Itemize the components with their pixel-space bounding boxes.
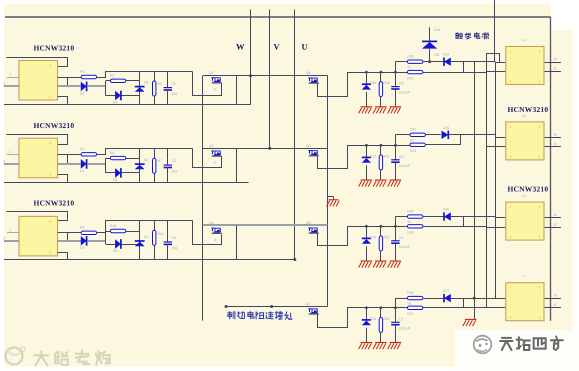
capacitor C5 bbox=[391, 135, 411, 180]
zener D9 bbox=[135, 220, 149, 259]
ground resistor row4 bbox=[373, 343, 387, 350]
opto U7 left pin stubs bbox=[486, 299, 507, 308]
gate rail row1 wire bbox=[203, 75, 328, 77]
svg-text:C7: C7 bbox=[399, 317, 403, 321]
resistor R22 row3 bbox=[379, 226, 390, 261]
opto U6 right pins bbox=[544, 213, 561, 228]
svg-text:U7: U7 bbox=[522, 275, 526, 279]
node U vertical wire bbox=[293, 10, 296, 262]
ground zener row3 bbox=[359, 261, 373, 268]
wire Q7 source drop bbox=[318, 308, 396, 328]
left gate bus vertical wire bbox=[202, 76, 204, 321]
svg-text:104: 104 bbox=[172, 246, 178, 250]
svg-text:11: 11 bbox=[554, 67, 558, 71]
label U5 HCNW3210 bbox=[508, 105, 549, 114]
svg-text:8: 8 bbox=[539, 125, 541, 129]
svg-text:104: 104 bbox=[172, 92, 178, 96]
svg-text:4: 4 bbox=[510, 155, 512, 159]
diode D26 antiparallel bbox=[423, 208, 496, 221]
svg-text:8: 8 bbox=[50, 219, 52, 223]
zener D22 bbox=[362, 226, 377, 261]
svg-text:D5: D5 bbox=[113, 178, 117, 182]
parallel block left wire bbox=[105, 158, 107, 173]
svg-text:R2: R2 bbox=[110, 74, 114, 78]
svg-text:8: 8 bbox=[50, 64, 52, 68]
svg-text:C4: C4 bbox=[399, 82, 403, 86]
svg-text:8: 8 bbox=[539, 205, 541, 209]
wire Q6 source drop bbox=[318, 227, 396, 246]
svg-text:0.01uF: 0.01uF bbox=[399, 245, 411, 249]
svg-text:W: W bbox=[236, 42, 245, 52]
svg-text:R22: R22 bbox=[384, 235, 390, 239]
ground resistor row3 bbox=[373, 261, 387, 268]
ground resistor row2 bbox=[373, 180, 387, 187]
resistor R20 row1 bbox=[379, 72, 390, 107]
svg-text:D22: D22 bbox=[370, 235, 376, 239]
trigger bus B vertical wire bbox=[495, 62, 497, 298]
svg-text:4: 4 bbox=[510, 80, 512, 84]
svg-text:D1: D1 bbox=[80, 91, 84, 95]
svg-text:5: 5 bbox=[539, 235, 541, 239]
resistor R5 gate bbox=[58, 147, 97, 156]
ground zener row1 bbox=[359, 107, 373, 114]
svg-text:D26: D26 bbox=[443, 208, 449, 212]
wire merge row3 bbox=[423, 217, 486, 227]
IGBT Q2 bbox=[209, 144, 222, 165]
svg-text:Q5: Q5 bbox=[306, 144, 311, 148]
wire rail to resistors row2 bbox=[365, 135, 410, 147]
brake rail row4 wire bbox=[225, 305, 328, 308]
label U1 HCNW3210 bbox=[34, 43, 75, 52]
node W vertical wire bbox=[249, 10, 252, 105]
svg-text:R10: R10 bbox=[110, 224, 116, 228]
diode D25 antiparallel bbox=[425, 126, 495, 139]
capacitor C1 bbox=[164, 72, 178, 105]
label U2 HCNW3210 bbox=[34, 121, 75, 130]
diode D8 parallel bbox=[106, 239, 140, 253]
svg-text:HCNW3210: HCNW3210 bbox=[34, 43, 75, 52]
opto U5 right pins bbox=[544, 133, 561, 147]
svg-text:4: 4 bbox=[510, 235, 512, 239]
resistor R11 gate-emitter bbox=[153, 220, 164, 259]
opto U5 left pin stubs bbox=[486, 138, 507, 147]
resistor R31 lower bbox=[407, 70, 423, 80]
svg-text:R11: R11 bbox=[158, 232, 164, 236]
diode D2 parallel bbox=[106, 91, 140, 105]
IGBT Q3 bbox=[209, 221, 222, 242]
wire rail to resistors row3 bbox=[365, 217, 407, 228]
trigger return vertical wire bbox=[473, 62, 476, 319]
svg-text:R37: R37 bbox=[407, 312, 413, 316]
opto-coupler U6 body bbox=[506, 194, 544, 240]
svg-text:C5: C5 bbox=[399, 155, 403, 159]
zener D3 bbox=[135, 72, 149, 105]
svg-text:D7: D7 bbox=[80, 246, 84, 250]
svg-text:2: 2 bbox=[10, 150, 12, 154]
capacitor C2 bbox=[164, 149, 178, 183]
opto U7 right pins bbox=[544, 293, 561, 307]
ground resistor row1 bbox=[373, 107, 387, 114]
svg-text:V: V bbox=[274, 42, 281, 52]
DC bus right border wire bbox=[550, 17, 552, 320]
resistor R33 lower bbox=[410, 143, 426, 153]
svg-text:5: 5 bbox=[539, 155, 541, 159]
svg-text:0.01uF: 0.01uF bbox=[399, 164, 411, 168]
svg-text:D21: D21 bbox=[370, 154, 376, 158]
opto U4 left pin stubs bbox=[486, 63, 507, 72]
wire Q2 drain loop bbox=[236, 148, 238, 182]
resistor R9 gate bbox=[58, 225, 97, 234]
svg-text:2: 2 bbox=[10, 228, 12, 232]
diode D7 series bbox=[58, 236, 106, 250]
trigger bus A top corner wire bbox=[487, 54, 500, 63]
zener D19 bootstrap bbox=[422, 27, 441, 63]
svg-text:D4: D4 bbox=[80, 169, 84, 173]
wire merge row1 bbox=[423, 62, 486, 73]
svg-text:10: 10 bbox=[554, 57, 558, 61]
svg-text:8: 8 bbox=[50, 141, 52, 145]
svg-text:4: 4 bbox=[510, 316, 512, 320]
svg-text:U5: U5 bbox=[522, 114, 526, 118]
svg-text:Q3: Q3 bbox=[209, 221, 214, 225]
resistor R35 lower bbox=[407, 225, 423, 235]
svg-text:R3: R3 bbox=[158, 82, 162, 86]
logo icon 天拓四方 bbox=[474, 336, 492, 354]
svg-text:5: 5 bbox=[539, 316, 541, 320]
resistor R10 parallel bbox=[106, 224, 140, 233]
svg-text:11: 11 bbox=[554, 222, 558, 226]
zener D6 bbox=[135, 149, 149, 183]
diode D4 series bbox=[58, 159, 106, 173]
opto-coupler U2 input top wire bbox=[7, 135, 68, 145]
svg-text:0.01uF: 0.01uF bbox=[399, 326, 411, 330]
svg-text:D27: D27 bbox=[443, 289, 449, 293]
wire merge row2 bbox=[425, 135, 461, 145]
IGBT Q7 bbox=[306, 302, 319, 314]
opto-coupler U1 pin3 input wire bbox=[3, 82, 19, 86]
opto-coupler U3 pin2 stub wire bbox=[7, 228, 19, 232]
parallel block left wire bbox=[105, 231, 107, 244]
wire Q1 drain loop bbox=[236, 76, 238, 105]
wire rail to Q2 source bbox=[193, 149, 222, 168]
resistor R7 gate-emitter bbox=[153, 149, 162, 183]
IGBT Q1 bbox=[209, 71, 222, 92]
opto-coupler U2 pin5 stub wire bbox=[58, 175, 68, 183]
capacitor C6 bbox=[391, 217, 411, 261]
svg-text:R23: R23 bbox=[384, 317, 390, 321]
svg-text:D24: D24 bbox=[443, 53, 449, 57]
wire R9 to rail bbox=[97, 221, 193, 233]
svg-text:U6: U6 bbox=[522, 194, 526, 198]
wire R1 to rail bbox=[97, 72, 193, 78]
opto-coupler U3 pin3 input wire bbox=[3, 236, 19, 241]
opto-coupler U1 body bbox=[19, 61, 58, 101]
svg-text:R1: R1 bbox=[80, 70, 84, 74]
phase W bottom rail wire bbox=[4, 104, 251, 106]
svg-text:11: 11 bbox=[554, 303, 558, 307]
resistor R36 upper bbox=[407, 291, 423, 306]
wire pin link bbox=[67, 77, 69, 86]
opto-coupler U3 body bbox=[19, 216, 58, 256]
svg-text:18V: 18V bbox=[434, 53, 441, 57]
wire Q3 drain loop bbox=[236, 225, 238, 259]
resistor R30 upper bbox=[407, 54, 423, 69]
svg-text:R32: R32 bbox=[410, 128, 416, 132]
resistor R32 upper bbox=[410, 128, 426, 143]
svg-text:HCNW3210: HCNW3210 bbox=[34, 199, 75, 208]
opto-coupler U1 pin5 stub wire bbox=[58, 97, 68, 105]
gate rail row2 wire bbox=[203, 148, 328, 150]
svg-text:3: 3 bbox=[3, 159, 5, 163]
wire R5 to rail bbox=[97, 149, 193, 155]
diode D5 parallel bbox=[106, 168, 140, 182]
wire pin link bbox=[67, 233, 69, 241]
svg-text:1: 1 bbox=[510, 125, 512, 129]
wire rail to Q1 source bbox=[193, 72, 222, 96]
resistor R2 parallel bbox=[106, 74, 140, 83]
opto-coupler U2 body bbox=[19, 138, 58, 178]
svg-text:8: 8 bbox=[539, 286, 541, 290]
svg-text:D8: D8 bbox=[113, 249, 117, 253]
svg-text:8: 8 bbox=[539, 50, 541, 54]
svg-text:R36: R36 bbox=[407, 291, 413, 295]
wire rail to resistors row1 bbox=[365, 62, 407, 74]
right gate bus vertical wire bbox=[327, 76, 329, 307]
wire merge row4 bbox=[423, 298, 486, 308]
label brake resistor connection 制动电阻连接处 bbox=[228, 312, 292, 320]
label W bbox=[236, 42, 245, 52]
svg-text:HCNW3210: HCNW3210 bbox=[34, 121, 75, 130]
svg-text:R21: R21 bbox=[384, 154, 390, 158]
svg-text:Q7: Q7 bbox=[306, 302, 311, 306]
svg-text:1: 1 bbox=[510, 286, 512, 290]
opto-coupler U2 pin3 input wire bbox=[3, 159, 19, 164]
parallel block left wire bbox=[105, 81, 107, 96]
ground zener row2 bbox=[359, 180, 373, 187]
opto-coupler U7 body bbox=[506, 275, 544, 321]
svg-text:3: 3 bbox=[3, 236, 5, 240]
wire Q4 source drop bbox=[318, 73, 396, 97]
svg-text:R6: R6 bbox=[110, 151, 114, 155]
capacitor C3 bbox=[164, 220, 178, 259]
svg-text:1: 1 bbox=[510, 205, 512, 209]
svg-text:11: 11 bbox=[554, 142, 558, 146]
capacitor C4 bbox=[391, 62, 411, 107]
svg-text:U: U bbox=[302, 42, 308, 52]
svg-text:104: 104 bbox=[172, 169, 178, 173]
svg-text:C2: C2 bbox=[172, 159, 176, 163]
svg-text:HCNW3210: HCNW3210 bbox=[508, 185, 549, 194]
wire pin link bbox=[67, 154, 69, 164]
IGBT Q4 bbox=[306, 71, 319, 83]
opto-coupler U1 input top wire bbox=[7, 58, 68, 67]
node V vertical wire bbox=[268, 10, 271, 150]
svg-text:R35: R35 bbox=[407, 231, 413, 235]
svg-text:5: 5 bbox=[50, 251, 52, 255]
resistor R21 row2 bbox=[379, 145, 390, 180]
wire rail to resistors row4 bbox=[365, 299, 407, 310]
svg-text:R33: R33 bbox=[410, 149, 416, 153]
label V bbox=[274, 42, 281, 52]
svg-text:R9: R9 bbox=[80, 225, 84, 229]
svg-text:R7: R7 bbox=[158, 159, 162, 163]
resistor R37 lower bbox=[407, 306, 423, 316]
svg-text:20: 20 bbox=[410, 138, 414, 142]
logo text 天拓四方 bbox=[500, 337, 563, 351]
opto-coupler U3 input top wire bbox=[7, 212, 68, 221]
svg-text:10: 10 bbox=[554, 133, 558, 137]
zener D20 bbox=[362, 72, 377, 107]
label U3 HCNW3210 bbox=[34, 199, 75, 208]
ground capacitor row2 bbox=[388, 180, 402, 187]
svg-text:R31: R31 bbox=[407, 76, 413, 80]
phase U bottom rail wire bbox=[4, 259, 295, 261]
capacitor C7 bbox=[391, 298, 411, 342]
IGBT Q5 bbox=[306, 144, 319, 156]
svg-text:C1: C1 bbox=[172, 81, 176, 85]
svg-text:R5: R5 bbox=[80, 147, 84, 151]
diode D1 series bbox=[58, 82, 106, 96]
svg-text:C6: C6 bbox=[399, 236, 403, 240]
resistor R1 gate bbox=[58, 70, 97, 79]
svg-text:U4: U4 bbox=[522, 39, 526, 43]
svg-text:5: 5 bbox=[50, 173, 52, 177]
svg-text:HCNW3210: HCNW3210 bbox=[508, 105, 549, 114]
svg-text:R30: R30 bbox=[407, 54, 413, 58]
svg-text:5: 5 bbox=[50, 95, 52, 99]
trigger bus A vertical wire bbox=[486, 53, 488, 308]
svg-text:20: 20 bbox=[407, 220, 411, 224]
opto-coupler U4 body bbox=[506, 39, 544, 85]
svg-text:0.01uF: 0.01uF bbox=[399, 91, 411, 95]
svg-text:Q2: Q2 bbox=[209, 144, 214, 148]
diode D27 antiparallel bbox=[423, 289, 496, 302]
zener D23 bbox=[362, 308, 377, 343]
ground gate bus bbox=[327, 197, 340, 207]
resistor R6 parallel bbox=[106, 151, 140, 160]
svg-text:D2: D2 bbox=[113, 101, 117, 105]
ground trigger return bbox=[463, 319, 477, 326]
resistor R3 gate-emitter bbox=[153, 72, 162, 105]
svg-text:1: 1 bbox=[510, 50, 512, 54]
label U bbox=[302, 42, 308, 52]
gate rail row3 wire bbox=[203, 224, 328, 226]
trigger supply vertical wire bbox=[494, 0, 496, 62]
svg-text:D19: D19 bbox=[434, 28, 440, 32]
wire Q5 source drop bbox=[318, 146, 396, 169]
svg-text:D20: D20 bbox=[370, 81, 376, 85]
opto-coupler U5 body bbox=[506, 114, 544, 160]
ground capacitor row1 bbox=[388, 107, 402, 114]
watermark text bbox=[34, 351, 109, 366]
svg-text:C3: C3 bbox=[172, 236, 176, 240]
wire rail to Q3 source bbox=[193, 221, 222, 245]
ground zener row4 bbox=[359, 343, 373, 350]
opto-coupler U3 pin5 stub wire bbox=[58, 253, 68, 260]
svg-text:Q4: Q4 bbox=[306, 71, 311, 75]
svg-text:R34: R34 bbox=[407, 209, 413, 213]
ground capacitor row3 bbox=[388, 261, 402, 268]
diode D24 antiparallel bbox=[423, 53, 496, 66]
svg-text:10: 10 bbox=[554, 213, 558, 217]
opto-coupler U2 pin2 stub wire bbox=[7, 150, 19, 155]
svg-text:10: 10 bbox=[554, 293, 558, 297]
svg-text:20: 20 bbox=[407, 65, 411, 69]
svg-text:D23: D23 bbox=[370, 317, 376, 321]
opto-coupler U1 pin2 stub wire bbox=[7, 73, 19, 78]
svg-text:D9: D9 bbox=[144, 235, 148, 239]
svg-text:5: 5 bbox=[539, 80, 541, 84]
ground capacitor row4 bbox=[388, 343, 402, 350]
svg-text:D6: D6 bbox=[144, 158, 148, 162]
zener D21 bbox=[362, 145, 377, 180]
svg-text:20: 20 bbox=[407, 302, 411, 306]
opto U6 left pin stubs bbox=[486, 218, 507, 228]
svg-text:Q6: Q6 bbox=[306, 221, 311, 225]
resistor R34 upper bbox=[407, 209, 423, 224]
IGBT Q6 bbox=[306, 221, 319, 233]
phase V bottom rail wire bbox=[4, 182, 249, 184]
svg-text:3: 3 bbox=[3, 82, 5, 86]
DC bus top wire bbox=[5, 16, 551, 18]
opto U4 right pins bbox=[544, 57, 561, 71]
label U6 HCNW3210 bbox=[508, 185, 549, 194]
svg-text:D3: D3 bbox=[144, 80, 148, 84]
svg-text:2: 2 bbox=[10, 73, 12, 77]
svg-text:R20: R20 bbox=[384, 81, 390, 85]
svg-text:D25: D25 bbox=[443, 126, 449, 130]
resistor R23 row4 bbox=[379, 308, 390, 343]
svg-text:Q1: Q1 bbox=[209, 71, 214, 75]
watermark icon bbox=[6, 347, 26, 365]
label trigger supply 触发电源 bbox=[456, 33, 489, 40]
